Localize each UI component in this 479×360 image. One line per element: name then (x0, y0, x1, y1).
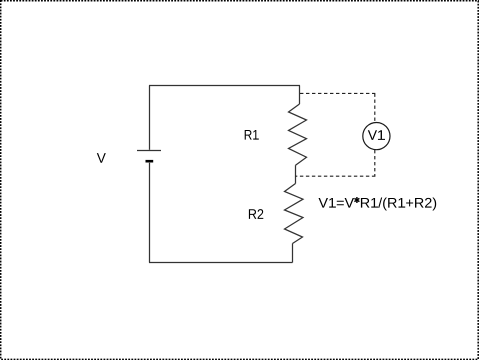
label R1 (245, 130, 259, 140)
formula asterisk star (354, 197, 359, 203)
label V (source) (97, 153, 106, 163)
wire left upper (149, 86, 151, 150)
dashed probe wire right upper vertical (374, 94, 376, 123)
battery V short plate (-) (146, 160, 154, 163)
resistor R2 (285, 184, 304, 244)
formula V1=V*R1/(R1+R2) (319, 197, 437, 210)
wire right bottom segment (292, 244, 294, 263)
dashed probe wire right lower vertical (374, 150, 376, 177)
voltmeter V1 body (363, 123, 390, 150)
wire right top segment (299, 86, 301, 105)
resistor R1 (289, 104, 307, 165)
wire bottom node (149, 262, 293, 264)
dashed probe wire top horizontal (300, 92, 375, 94)
wire top node (149, 85, 300, 87)
battery V long plate (+) (137, 150, 161, 152)
label V1 (meter) (368, 130, 385, 140)
wire mid junction node (295, 165, 297, 183)
wire left lower (149, 163, 151, 263)
label R2 (249, 209, 263, 219)
dashed probe wire bottom horizontal (296, 175, 376, 177)
